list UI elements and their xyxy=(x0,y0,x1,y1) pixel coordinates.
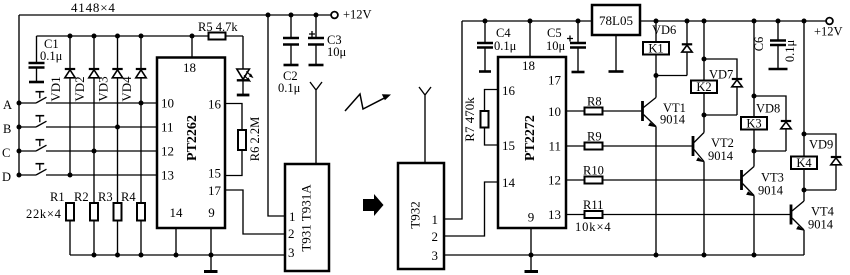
svg-text:10: 10 xyxy=(161,96,174,111)
svg-text:R5 4.7k: R5 4.7k xyxy=(198,20,238,34)
svg-text:K1: K1 xyxy=(648,42,663,56)
switch SA xyxy=(19,92,157,103)
svg-text:15: 15 xyxy=(502,138,515,153)
transistor VT2 9014 xyxy=(693,115,734,255)
module U3 T932 xyxy=(398,163,444,269)
svg-text:K2: K2 xyxy=(696,80,711,94)
svg-text:2: 2 xyxy=(288,226,295,241)
svg-text:78L05: 78L05 xyxy=(599,13,633,28)
svg-text:0.1μ: 0.1μ xyxy=(783,40,797,63)
wire left +12V bus TX xyxy=(18,15,20,175)
svg-text:9: 9 xyxy=(208,205,215,220)
svg-text:T931 T931A: T931 T931A xyxy=(299,184,314,252)
ground TX xyxy=(204,255,218,272)
wire pin9 lead RX xyxy=(530,228,532,255)
svg-text:17: 17 xyxy=(208,183,222,198)
ground RX pin9 xyxy=(525,255,539,272)
capacitor C2 xyxy=(278,15,301,95)
svg-text:15: 15 xyxy=(208,166,221,181)
transistor VT3 9014 xyxy=(742,151,784,255)
switch SD xyxy=(19,164,157,175)
LED VD5 xyxy=(237,36,254,94)
svg-text:C5: C5 xyxy=(547,26,562,40)
svg-text:VD2: VD2 xyxy=(72,76,87,101)
junction dots ground rail RX xyxy=(529,253,757,258)
svg-text:17: 17 xyxy=(548,73,562,88)
capacitor C4 xyxy=(477,21,517,72)
svg-text:10k×4: 10k×4 xyxy=(575,220,612,234)
svg-text:0.1μ: 0.1μ xyxy=(494,39,517,53)
relay K1 xyxy=(643,21,669,76)
svg-text:16: 16 xyxy=(502,83,516,98)
resistor R3 xyxy=(98,127,122,255)
diode VD8 xyxy=(754,96,791,151)
wire +5V to T932 pin1 xyxy=(444,21,462,219)
svg-text:VT3: VT3 xyxy=(761,171,784,185)
wire +5V rail RX xyxy=(462,20,592,22)
diode VD9 xyxy=(804,134,841,190)
ground 78L05 xyxy=(609,35,624,72)
switch SB xyxy=(19,116,157,127)
wire pin14 lead xyxy=(175,228,177,255)
svg-text:B: B xyxy=(3,122,11,136)
svg-text:C4: C4 xyxy=(496,26,511,40)
resistor R4 xyxy=(121,103,145,255)
relay K3 xyxy=(741,21,767,151)
junction dots +12V rail TX xyxy=(266,13,319,18)
capacitor C3 polarized xyxy=(308,15,347,65)
junction dots data rows A-D xyxy=(68,101,144,178)
svg-text:R9: R9 xyxy=(587,130,602,144)
svg-text:D: D xyxy=(2,170,11,184)
ground LED xyxy=(237,94,250,97)
svg-text:R11: R11 xyxy=(583,198,603,212)
svg-text:VD7: VD7 xyxy=(709,68,733,82)
transistor VT4 9014 xyxy=(791,190,835,255)
terminal +12V RX xyxy=(814,18,843,39)
diode VD3 xyxy=(96,36,123,127)
svg-text:A: A xyxy=(3,98,12,112)
svg-text:10: 10 xyxy=(548,104,561,119)
svg-text:R4: R4 xyxy=(121,190,136,204)
diode VD7 xyxy=(704,59,742,115)
svg-text:12: 12 xyxy=(161,144,174,159)
svg-text:9014: 9014 xyxy=(660,113,686,127)
svg-text:R8: R8 xyxy=(587,95,602,109)
RF wave arrow xyxy=(345,94,391,111)
resistor R7 xyxy=(462,90,498,146)
wire pin9 lead xyxy=(210,228,212,255)
junction dots +5V rail RX xyxy=(483,19,581,24)
terminal +12V TX xyxy=(331,8,371,22)
svg-text:R3: R3 xyxy=(98,190,113,204)
svg-text:10μ: 10μ xyxy=(546,39,566,53)
svg-text:1: 1 xyxy=(289,209,296,224)
resistor R1 xyxy=(50,190,74,255)
svg-text:12: 12 xyxy=(548,173,561,188)
wire pin17 to T931A pin2 xyxy=(225,190,285,234)
svg-text:3: 3 xyxy=(288,245,295,260)
module U2 T931A xyxy=(285,164,329,271)
junction dots ground rail TX xyxy=(92,253,214,258)
svg-text:11: 11 xyxy=(548,139,561,154)
svg-text:VD4: VD4 xyxy=(119,76,134,102)
svg-text:PT2272: PT2272 xyxy=(523,115,538,161)
svg-text:R6 2.2M: R6 2.2M xyxy=(248,117,262,161)
regulator 78L05 xyxy=(592,5,640,35)
svg-text:14: 14 xyxy=(502,175,516,190)
svg-text:R1: R1 xyxy=(50,190,65,204)
svg-text:14: 14 xyxy=(170,205,184,220)
wire pin18 lead xyxy=(191,36,193,58)
svg-text:+12V: +12V xyxy=(814,25,843,39)
svg-text:13: 13 xyxy=(548,207,561,222)
junction dots VCC net y36 xyxy=(68,34,195,39)
svg-text:16: 16 xyxy=(208,97,222,112)
relay K2 xyxy=(691,21,717,115)
wire +12V rail RX xyxy=(640,20,826,22)
resistor R2 xyxy=(74,151,98,255)
resistor R11 xyxy=(566,198,791,218)
wire pin18 lead RX xyxy=(529,21,531,57)
svg-text:4148×4: 4148×4 xyxy=(71,0,116,15)
svg-text:9014: 9014 xyxy=(708,149,734,163)
wire T932 pin2 to PT2272 pin14 xyxy=(444,182,498,236)
IC U4 PT2272 xyxy=(498,57,566,228)
svg-text:VD8: VD8 xyxy=(756,102,780,116)
transistor VT1 9014 xyxy=(643,76,686,256)
svg-text:+12V: +12V xyxy=(343,8,372,22)
svg-text:R2: R2 xyxy=(74,190,89,204)
svg-text:18: 18 xyxy=(183,60,196,75)
svg-text:11: 11 xyxy=(161,120,174,135)
junction dots relay-diode top nodes xyxy=(702,57,807,137)
resistor R8 xyxy=(566,95,642,115)
wire +12V to T931A pin1 xyxy=(268,15,285,216)
IC U1 PT2262 xyxy=(157,58,225,229)
svg-text:13: 13 xyxy=(161,168,174,183)
svg-text:9014: 9014 xyxy=(758,184,784,198)
diode VD6 xyxy=(652,21,692,76)
junction dots +12V rail RX xyxy=(654,19,807,24)
svg-text:9: 9 xyxy=(528,210,535,225)
svg-text:VD1: VD1 xyxy=(48,76,63,101)
antenna RX xyxy=(419,87,431,163)
wire VCC net y36 TX xyxy=(37,35,244,37)
relay K4 xyxy=(791,21,817,190)
resistor R9 xyxy=(566,130,693,150)
diode VD1 xyxy=(48,36,75,175)
resistor R6 xyxy=(225,104,262,176)
svg-text:C: C xyxy=(2,146,10,160)
block arrow TX to RX xyxy=(363,194,384,216)
svg-text:VD9: VD9 xyxy=(809,138,833,152)
diode VD2 xyxy=(72,36,99,151)
svg-text:0.1μ: 0.1μ xyxy=(40,49,63,63)
svg-text:2: 2 xyxy=(432,229,439,244)
svg-text:T932: T932 xyxy=(408,201,423,228)
svg-text:1: 1 xyxy=(432,212,439,227)
resistor R5 xyxy=(198,20,238,40)
antenna TX xyxy=(310,82,322,164)
junction dots +12V bus at rows A-D xyxy=(17,101,22,178)
switch SC xyxy=(19,140,157,151)
svg-text:R10: R10 xyxy=(583,164,604,178)
svg-text:VT2: VT2 xyxy=(711,136,734,150)
wire ground rail RX xyxy=(444,254,804,256)
capacitor C1 xyxy=(29,36,63,82)
svg-text:22k×4: 22k×4 xyxy=(26,207,62,221)
svg-text:10μ: 10μ xyxy=(327,45,347,59)
svg-text:VD3: VD3 xyxy=(96,76,111,101)
diode VD4 xyxy=(119,36,146,103)
svg-text:VT4: VT4 xyxy=(811,205,835,219)
svg-text:9014: 9014 xyxy=(808,218,834,232)
wire +12V top rail TX xyxy=(19,14,331,16)
resistor R10 xyxy=(566,164,741,184)
svg-text:18: 18 xyxy=(522,58,535,73)
capacitor C6 xyxy=(752,21,797,69)
svg-text:K4: K4 xyxy=(796,156,812,170)
svg-text:PT2262: PT2262 xyxy=(185,115,200,161)
svg-text:R7 470k: R7 470k xyxy=(462,97,477,142)
svg-text:VD6: VD6 xyxy=(652,23,676,37)
svg-text:0.1μ: 0.1μ xyxy=(278,81,301,95)
capacitor C5 polarized xyxy=(546,21,586,72)
wire ground rail TX xyxy=(70,254,285,256)
junction dots collector nodes xyxy=(654,73,807,193)
svg-text:K3: K3 xyxy=(746,117,761,131)
svg-text:3: 3 xyxy=(432,248,439,263)
